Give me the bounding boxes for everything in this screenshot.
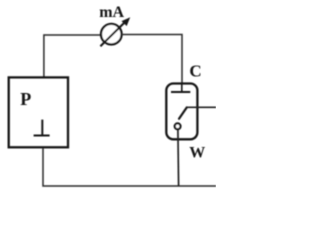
- label C: [189, 62, 201, 81]
- wire: bottom wire from box P down and across to the right edge: [43, 149, 216, 187]
- electrode C plate (bar inside tube top): [171, 84, 190, 92]
- wire: contact lead exiting tube to right edge: [186, 106, 216, 108]
- box P (pump / power unit): [9, 77, 68, 147]
- wire: lead from contact circle down to bottom wire: [177, 129, 180, 186]
- svg-text:W: W: [189, 145, 205, 162]
- svg-text:mA: mA: [99, 4, 124, 21]
- label mA: [99, 4, 124, 21]
- tube envelope (rounded box): [166, 84, 197, 140]
- contact circle (movable electrode W): [175, 123, 181, 129]
- svg-text:P: P: [20, 89, 31, 109]
- switch contact arm inside tube: [179, 107, 187, 118]
- wire: top wire from ammeter to right corner and down to tube C: [122, 35, 182, 85]
- svg-text:C: C: [189, 62, 201, 81]
- ground symbol inside P: [34, 120, 50, 136]
- ammeter mA (circle with arrow): [100, 17, 130, 46]
- label W: [189, 145, 205, 162]
- label P: [20, 89, 31, 109]
- wire: top wire from left corner to ammeter: [44, 34, 101, 36]
- wire: left vertical drop from top wire to box P: [43, 34, 45, 77]
